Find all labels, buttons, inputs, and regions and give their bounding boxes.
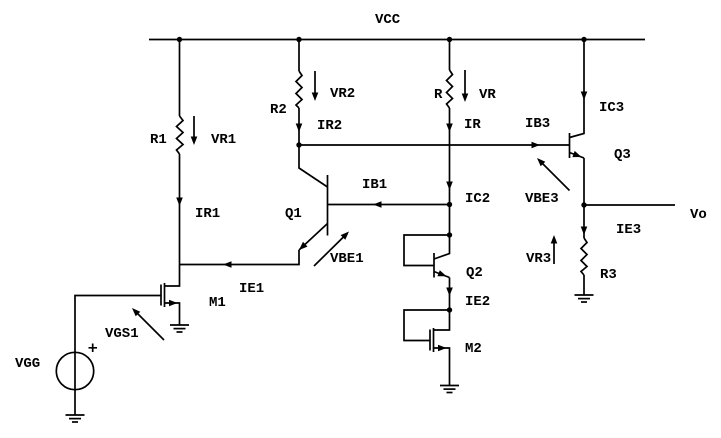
svg-text:M1: M1 bbox=[209, 295, 226, 311]
svg-text:IE2: IE2 bbox=[465, 294, 490, 310]
svg-text:IE1: IE1 bbox=[239, 281, 264, 297]
ground VGG bbox=[66, 415, 85, 422]
resistor R2 bbox=[296, 71, 302, 108]
junction M2 drain/gate tie bbox=[447, 307, 452, 312]
svg-text:VR2: VR2 bbox=[330, 86, 355, 102]
svg-text:R2: R2 bbox=[270, 102, 287, 118]
ground R3 bbox=[575, 295, 594, 302]
current arrow IB3 bbox=[532, 142, 541, 149]
junction VCC/Q3 collector bbox=[581, 37, 586, 42]
svg-text:IB3: IB3 bbox=[525, 116, 550, 132]
current arrow IR bbox=[446, 124, 453, 133]
svg-text:VGS1: VGS1 bbox=[105, 326, 139, 342]
voltage arrow VGS1 bbox=[132, 308, 164, 340]
svg-text:IC2: IC2 bbox=[465, 191, 490, 207]
wire node B to Q3 base bbox=[299, 144, 570, 146]
wire VCC to R bbox=[449, 40, 451, 71]
wire VCC to R2 bbox=[298, 40, 300, 72]
wire R to node C bbox=[449, 108, 451, 205]
junction VCC/R1 bbox=[177, 37, 182, 42]
wire Q2 emitter to M2 drain bbox=[449, 278, 451, 311]
svg-text:VR1: VR1 bbox=[211, 132, 236, 148]
svg-text:IR2: IR2 bbox=[317, 118, 342, 134]
wire R2 to node B bbox=[298, 108, 300, 145]
svg-text:VBE3: VBE3 bbox=[525, 191, 559, 207]
voltage arrow VR3 bbox=[551, 235, 558, 264]
wire node C to Q2 collector node bbox=[449, 205, 451, 236]
svg-text:IR1: IR1 bbox=[195, 206, 220, 222]
svg-text:VBE1: VBE1 bbox=[330, 251, 364, 267]
junction Q2 collector/base tie bbox=[447, 232, 452, 237]
junction node Vo bbox=[581, 202, 586, 207]
voltage arrow VR1 bbox=[191, 116, 198, 145]
wire VCC to R1 bbox=[179, 40, 181, 117]
resistor R bbox=[447, 70, 453, 108]
wire VCC rail bbox=[149, 39, 645, 41]
transistor M2 (diode connected) bbox=[404, 310, 450, 386]
svg-text:VR: VR bbox=[479, 87, 496, 103]
wire node Vo to output bbox=[584, 204, 675, 206]
current arrow IC3 bbox=[581, 92, 588, 101]
current arrow IC2 bbox=[446, 182, 453, 191]
voltage arrow VBE3 bbox=[537, 158, 570, 191]
source VGG bbox=[56, 344, 97, 390]
junction VCC/R bbox=[447, 37, 452, 42]
svg-text:VCC: VCC bbox=[375, 12, 401, 28]
current arrow IR1 bbox=[176, 198, 183, 207]
current arrow IE3 bbox=[581, 227, 588, 236]
junction node C (IB1 wire / R) bbox=[447, 202, 452, 207]
resistor R3 bbox=[581, 238, 587, 275]
svg-text:R3: R3 bbox=[600, 267, 617, 283]
wire IB1 (node C to Q1 base) bbox=[328, 204, 450, 206]
svg-text:Q3: Q3 bbox=[614, 147, 631, 163]
wire R3 to ground bbox=[583, 275, 585, 295]
svg-text:M2: M2 bbox=[465, 341, 482, 357]
wire M1 gate to VGG bbox=[75, 296, 161, 391]
current arrow IB1 bbox=[373, 201, 382, 208]
svg-text:R1: R1 bbox=[150, 132, 167, 148]
current arrow IE2 bbox=[446, 288, 453, 297]
wire Q1 emitter to M1 drain (IE1) bbox=[180, 250, 300, 265]
wire node Vo to R3 bbox=[583, 205, 585, 238]
wire R1 to M1 drain node bbox=[179, 154, 181, 265]
wire VGG to ground bbox=[74, 389, 76, 415]
voltage arrow VR bbox=[462, 70, 469, 102]
ground M1 bbox=[170, 325, 189, 332]
svg-text:IC3: IC3 bbox=[599, 100, 624, 116]
svg-text:IB1: IB1 bbox=[362, 177, 387, 193]
svg-text:Q1: Q1 bbox=[285, 206, 302, 222]
svg-text:R: R bbox=[434, 87, 443, 103]
transistor Q1 bbox=[299, 145, 328, 250]
svg-text:VR3: VR3 bbox=[526, 251, 551, 267]
wire Q3 emitter to node Vo bbox=[583, 158, 585, 205]
transistor Q3 bbox=[570, 40, 585, 159]
svg-text:VGG: VGG bbox=[15, 356, 40, 372]
junction VCC/R2 bbox=[296, 37, 301, 42]
voltage arrow VBE1 bbox=[314, 232, 349, 267]
resistor R1 bbox=[177, 116, 184, 154]
current arrow IR2 bbox=[296, 124, 303, 133]
svg-text:IE3: IE3 bbox=[616, 222, 641, 238]
svg-text:IR: IR bbox=[464, 117, 481, 133]
current arrow IE1 bbox=[223, 261, 232, 268]
transistor Q2 (diode connected) bbox=[404, 235, 450, 278]
ground M2 bbox=[440, 386, 459, 393]
junction node B (R2 / Q1 collector / Q3 base wire) bbox=[296, 142, 301, 147]
transistor M1 bbox=[161, 265, 180, 326]
svg-text:Vo: Vo bbox=[690, 207, 707, 223]
svg-text:Q2: Q2 bbox=[466, 265, 483, 281]
voltage arrow VR2 bbox=[312, 71, 319, 101]
